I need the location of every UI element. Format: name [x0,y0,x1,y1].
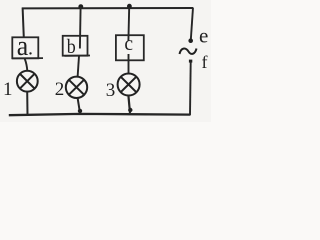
svg-text:3: 3 [106,80,116,101]
svg-text:1: 1 [3,79,13,100]
wire: box a to lamp 1 [25,59,28,71]
wire: lamp 1 to bottom bus [26,92,28,116]
lamp 1 (circle with X) [17,71,38,92]
svg-text:e: e [199,24,208,48]
lamp 3 (circle with X) [118,74,140,96]
wire: right side drop to terminal e [191,8,193,41]
lamp 2 (circle with X) [66,77,87,98]
node junction dot for branch c [127,4,132,9]
wire: top bus from left corner to right corner [22,7,193,9]
AC source tilde [180,49,197,55]
svg-text:f: f [202,52,208,72]
svg-text:2: 2 [55,79,65,100]
svg-text:b: b [67,36,76,58]
svg-text:c: c [124,34,133,55]
wire: branch b drop to box b [79,7,82,49]
wire: right side from terminal f down to bottom bus [189,62,192,115]
wire: lamp 3 to bottom bus, with junction dot [128,95,130,113]
wire: box b to lamp 2 [78,56,79,77]
node junction dot lamp2/bus [78,109,82,113]
wire: box c to lamp 3 [128,54,130,73]
wire: branch c drop to box c [127,7,130,41]
box b (component b) [63,36,90,58]
wire: lamp 2 to bottom bus, with junction dot [78,98,80,113]
box a (component a) [12,30,43,62]
node junction dot lamp3/bus [128,108,132,112]
box c (component c) [116,34,144,60]
node terminal e dot [188,38,193,43]
node terminal f tick [189,60,192,63]
wire: left branch drop to box a [23,8,24,38]
node junction dot for branch b [78,4,83,9]
wire: bottom bus [9,114,191,115]
svg-text:a: a [17,30,29,62]
